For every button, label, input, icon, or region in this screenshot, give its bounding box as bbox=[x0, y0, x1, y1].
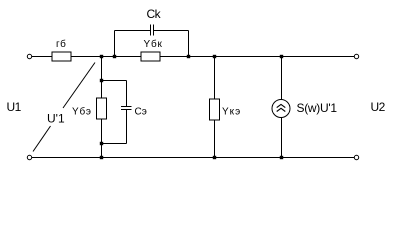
node dot B' on top rail bbox=[100, 55, 103, 58]
svg-text:Yкэ: Yкэ bbox=[222, 107, 241, 118]
wire Ck loop left vertical bbox=[114, 31, 116, 57]
wire node B' vertical upper (to Yбэ) bbox=[101, 57, 103, 99]
wire top rail: Yбк box to output terminal bbox=[160, 56, 355, 58]
node dot source on bottom rail bbox=[280, 156, 283, 159]
node dot Сэ branch top bbox=[100, 79, 103, 82]
resistor Yбк bbox=[141, 52, 160, 61]
terminal input top (left) bbox=[27, 54, 31, 58]
capacitor Ck left plate bbox=[150, 25, 152, 36]
svg-text:Yбк: Yбк bbox=[144, 38, 163, 50]
wire Сэ branch top stub bbox=[102, 80, 127, 82]
capacitor Ck right plate bbox=[153, 25, 155, 36]
wire Ck loop top right horizontal bbox=[154, 30, 189, 32]
svg-text:Ck: Ck bbox=[147, 7, 162, 21]
resistor Yбэ bbox=[97, 98, 107, 119]
terminal output bottom (right) bbox=[354, 155, 358, 159]
svg-text:Yбэ: Yбэ bbox=[72, 106, 92, 118]
wire current source branch lower bbox=[281, 118, 283, 158]
node dot Ck loop right on top rail bbox=[187, 55, 190, 58]
wire Ck loop right vertical bbox=[188, 31, 190, 57]
current source upper chevron bbox=[277, 104, 286, 107]
terminal output top (right) bbox=[354, 54, 358, 58]
svg-text:U1: U1 bbox=[7, 100, 22, 114]
terminal input bottom (left) bbox=[27, 155, 31, 159]
wire Ck loop top left horizontal bbox=[115, 30, 151, 32]
node dot B' branch on bottom rail bbox=[100, 156, 103, 159]
svg-text:гб: гб bbox=[56, 38, 66, 50]
capacitor Сэ bottom plate bbox=[121, 109, 132, 111]
node dot Ck loop left on top rail bbox=[113, 55, 116, 58]
current source lower chevron bbox=[277, 108, 286, 111]
resistor Yкэ bbox=[210, 99, 220, 120]
wire Сэ branch bottom stub bbox=[102, 143, 127, 145]
wire Сэ branch lower vertical bbox=[126, 110, 128, 144]
wire Yкэ branch lower bbox=[214, 120, 216, 158]
svg-text:S(w)U'1: S(w)U'1 bbox=[297, 101, 338, 115]
svg-text:Сэ: Сэ bbox=[135, 107, 147, 118]
wire Yкэ branch upper bbox=[214, 57, 216, 100]
resistor гб bbox=[52, 52, 71, 61]
wire top rail: input terminal to resistor гб bbox=[32, 56, 52, 58]
svg-text:U2: U2 bbox=[371, 100, 386, 114]
node dot source on top rail bbox=[280, 55, 283, 58]
wire current source branch upper bbox=[281, 57, 283, 101]
wire Сэ branch upper vertical bbox=[126, 81, 128, 107]
node dot Yкэ on top rail bbox=[213, 55, 216, 58]
node dot Yкэ on bottom rail bbox=[213, 156, 216, 159]
capacitor Сэ top plate bbox=[121, 106, 132, 108]
node dot Сэ branch bottom bbox=[100, 142, 103, 145]
wire top rail: гб to Yбк box bbox=[71, 56, 141, 58]
current source S(w)U'1 circle bbox=[272, 100, 290, 118]
wire node B' vertical lower (Yбэ to bottom rail) bbox=[101, 119, 103, 158]
wire bottom rail bbox=[32, 157, 355, 159]
U'1 voltage line upper segment bbox=[63, 63, 95, 109]
svg-text:U'1: U'1 bbox=[47, 112, 65, 126]
U'1 voltage line lower segment bbox=[33, 126, 51, 152]
